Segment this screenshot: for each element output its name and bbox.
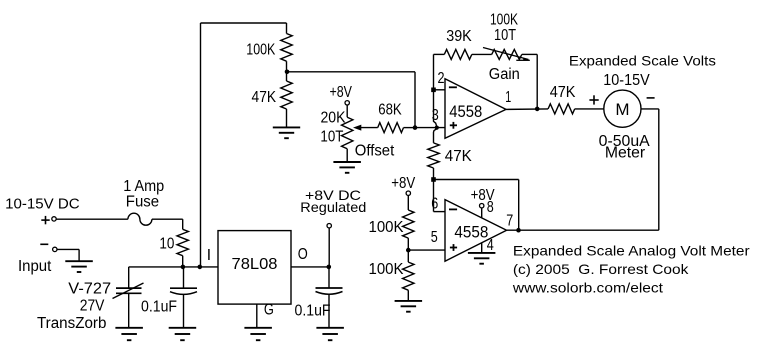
svg-text:+8V: +8V <box>391 175 416 192</box>
svg-text:27V: 27V <box>80 297 105 314</box>
svg-text:Offset: Offset <box>355 142 395 159</box>
power +8V offset terminal <box>345 101 349 105</box>
svg-text:7: 7 <box>506 212 513 229</box>
svg-text:O: O <box>298 246 308 263</box>
ground offset pot <box>333 161 361 163</box>
ground C2 <box>316 327 344 329</box>
wire pin4 ground stub <box>481 243 483 253</box>
svg-text:6: 6 <box>431 196 438 213</box>
resistor R4 68K <box>378 123 404 133</box>
ground transzorb <box>115 327 142 329</box>
node pin3 junction <box>435 126 439 130</box>
wire pin6 stub <box>433 180 435 212</box>
svg-text:Gain: Gain <box>489 66 520 83</box>
resistor R10 47K meter <box>548 104 575 114</box>
wire offset pot bottom lead <box>346 149 348 162</box>
op-amp U1B minus sign <box>449 208 457 210</box>
svg-text:TransZorb: TransZorb <box>37 315 106 332</box>
svg-text:10T: 10T <box>494 27 516 44</box>
ground ref divider <box>395 300 423 302</box>
svg-text:Expanded Scale Analog Volt Met: Expanded Scale Analog Volt Meter <box>513 242 750 258</box>
ground C1 <box>169 327 197 329</box>
wiper arrow offset pot <box>361 127 378 129</box>
wire input plus to fuse <box>56 218 128 220</box>
svg-text:0.1uF: 0.1uF <box>295 303 331 320</box>
ground divider <box>273 126 300 128</box>
wire between 39K and gain pot <box>472 53 492 55</box>
terminal input minus <box>53 247 57 251</box>
wire +8V regulated lead <box>328 228 330 267</box>
resistor R2 47K (input divider bottom) <box>286 72 288 81</box>
node 10 ohm bottom junction <box>181 265 186 270</box>
op-amp U1A minus sign <box>449 86 457 88</box>
regulator U2 78L08 box <box>218 231 291 305</box>
svg-text:1 Amp: 1 Amp <box>123 178 164 195</box>
resistor R7 47K (reference to pin3) <box>428 143 439 168</box>
wire meter right to U1B output <box>641 108 659 110</box>
svg-text:47K: 47K <box>445 148 473 165</box>
op-amp U1B 4558 <box>445 200 507 262</box>
potentiometer R3 20K 10T offset <box>342 117 353 149</box>
node pin6 feedback junction <box>431 177 436 182</box>
svg-text:68K: 68K <box>378 102 402 119</box>
node U1A output junction <box>535 107 540 112</box>
node 68K junction <box>413 125 418 130</box>
ground input minus <box>65 260 93 262</box>
svg-text:Regulated: Regulated <box>300 199 366 215</box>
wire sense line vertical (input sense) <box>200 23 202 267</box>
ground pin4 <box>468 252 496 254</box>
wire input minus to ground <box>57 248 79 250</box>
wire fuse to 10 ohm <box>152 218 183 220</box>
wire offset pot top lead <box>346 105 348 117</box>
svg-text:Expanded Scale Volts: Expanded Scale Volts <box>569 53 716 69</box>
node pin2 feedback junction <box>431 88 436 93</box>
svg-text:Input: Input <box>18 258 52 275</box>
wire divider top lead <box>407 195 409 210</box>
svg-text:3: 3 <box>432 107 439 124</box>
svg-text:0.1uF: 0.1uF <box>141 298 177 315</box>
op-amp U1A plus sign <box>450 124 457 126</box>
wire feedback top left <box>434 53 445 55</box>
svg-text:5: 5 <box>431 229 438 246</box>
svg-text:100K: 100K <box>369 219 405 236</box>
resistor R1 100K (input divider top) <box>286 23 288 34</box>
wire input rail <box>129 266 218 268</box>
power +8V divider terminal <box>406 191 410 195</box>
svg-text:78L08: 78L08 <box>232 256 278 273</box>
transzorb Z1 V-727 <box>128 267 130 288</box>
node divider junction <box>285 70 290 75</box>
node sense line junction <box>198 265 203 270</box>
svg-text:4558: 4558 <box>449 102 482 121</box>
svg-text:www.solorb.com/elect: www.solorb.com/elect <box>512 280 663 296</box>
wire regulator output <box>291 266 329 268</box>
svg-text:M: M <box>615 100 629 119</box>
label input minus <box>40 243 48 245</box>
node ref divider junction <box>406 248 411 253</box>
label meter plus <box>589 99 598 101</box>
terminal input plus <box>52 217 56 221</box>
svg-text:10T: 10T <box>320 129 343 146</box>
potentiometer R6 100K 10T gain <box>492 49 522 59</box>
label input plus <box>41 219 49 221</box>
meter M1 circle <box>604 90 641 127</box>
wire pin5 stub <box>408 249 445 251</box>
wire pin8 stub <box>481 208 483 218</box>
svg-text:20K: 20K <box>321 110 347 127</box>
resistor R8 100K (ref divider top) <box>403 210 414 238</box>
svg-text:(c) 2005 G. Forrest Cook: (c) 2005 G. Forrest Cook <box>513 261 690 277</box>
svg-text:10-15V: 10-15V <box>603 72 650 89</box>
svg-text:+8V: +8V <box>471 187 496 204</box>
fuse F1 1 Amp <box>128 213 152 225</box>
capacitor C1 0.1uF <box>183 267 185 288</box>
resistor R9 100K (ref divider bottom) <box>407 250 409 262</box>
wire feedback top right <box>522 53 537 55</box>
ground regulator <box>244 327 272 329</box>
svg-text:G: G <box>264 301 274 318</box>
wire U1A output <box>506 108 548 111</box>
wire divider node to 68K junction <box>287 71 415 73</box>
label meter minus <box>647 97 655 99</box>
svg-text:2: 2 <box>438 70 445 87</box>
terminal +8V regulated <box>327 224 331 228</box>
svg-text:Fuse: Fuse <box>126 194 159 211</box>
wire top rail from sense line to 100K divider <box>201 22 287 24</box>
svg-text:4: 4 <box>487 237 494 254</box>
wire 68K junction to pin3 <box>415 127 445 129</box>
wire regulator ground pin <box>256 304 258 328</box>
svg-text:10-15V DC: 10-15V DC <box>5 196 80 212</box>
svg-text:10: 10 <box>159 236 174 253</box>
svg-text:100K: 100K <box>490 12 519 29</box>
power +8V pin8 terminal <box>480 204 484 208</box>
svg-text:39K: 39K <box>446 28 472 45</box>
wiper arrow gain pot <box>483 48 529 60</box>
svg-text:I: I <box>207 247 211 264</box>
svg-text:100K: 100K <box>369 261 405 278</box>
svg-text:1: 1 <box>505 89 511 106</box>
resistor R11 10 ohm <box>177 229 188 255</box>
svg-text:47K: 47K <box>252 89 277 106</box>
svg-text:V-727: V-727 <box>68 280 111 297</box>
wire inverting net vertical <box>434 54 437 142</box>
wire pin2 stub <box>434 89 446 91</box>
svg-text:+8V: +8V <box>329 84 352 101</box>
wire U1B feedback top <box>434 179 519 181</box>
node U1B output junction <box>516 228 521 233</box>
capacitor C2 0.1uF <box>328 267 330 288</box>
node regulator output junction <box>327 265 332 270</box>
svg-text:100K: 100K <box>246 41 276 58</box>
svg-text:4558: 4558 <box>454 223 488 242</box>
svg-text:47K: 47K <box>550 84 576 101</box>
svg-text:Meter: Meter <box>605 145 645 162</box>
op-amp U1A 4558 <box>445 79 506 139</box>
resistor R5 39K feedback <box>444 49 472 59</box>
op-amp U1B plus sign <box>450 247 457 249</box>
